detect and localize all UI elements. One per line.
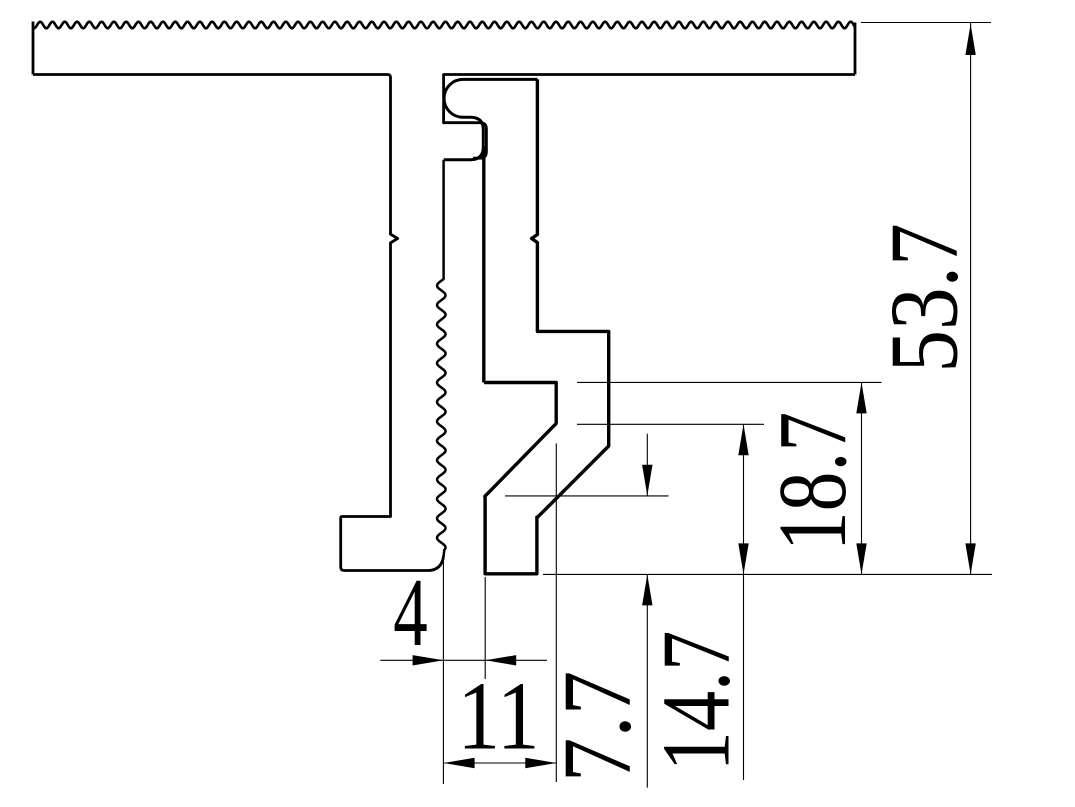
svg-text:7.7: 7.7 <box>544 671 651 783</box>
svg-text:4: 4 <box>393 560 427 667</box>
svg-text:11: 11 <box>457 662 539 769</box>
svg-text:14.7: 14.7 <box>644 631 751 772</box>
svg-text:18.7: 18.7 <box>760 412 867 551</box>
svg-text:53.7: 53.7 <box>870 223 977 372</box>
